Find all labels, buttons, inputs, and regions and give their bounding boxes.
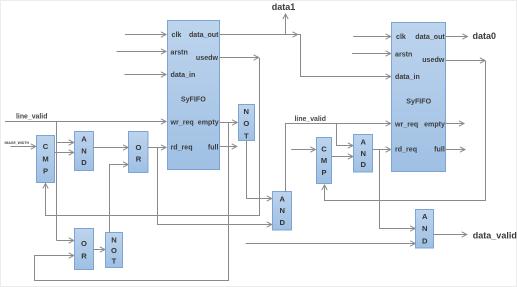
wire data1 up arrow [285,14,287,35]
gate NOT2 [106,233,123,268]
svg-text:N: N [244,107,249,116]
wire AND2 out up and right to wr_req2 [286,124,391,192]
wire line_valid branch to AND1 [57,142,74,144]
svg-text:T: T [112,256,117,265]
wire CMP1 out to AND1 [55,152,74,154]
svg-text:O: O [136,143,142,152]
wire CMP2 out to AND4 [332,156,353,158]
gate NOT1 [239,105,255,141]
svg-text:rd_req: rd_req [171,144,193,152]
svg-text:usedw: usedw [196,54,219,62]
svg-text:line_valid: line_valid [295,116,326,123]
wire rd_req1 branch down to AND2 [158,148,272,225]
block SyFIFO U2 [392,23,446,172]
svg-text:D: D [422,236,428,245]
svg-text:C: C [321,144,327,153]
wire line_valid branch to OR2 [57,240,74,242]
wire clk1 input [125,34,166,36]
svg-text:O: O [243,119,249,128]
wire AND1 out to OR1 [94,147,129,149]
block SyFIFO U1 [168,21,220,170]
svg-text:N: N [422,224,427,233]
wire full2 out [446,149,465,151]
gate AND5 [416,210,434,249]
svg-text:clk: clk [396,33,406,41]
gate AND1 [75,132,94,171]
svg-text:line_valid: line_valid [16,114,47,121]
svg-text:R: R [81,251,87,260]
svg-text:empty: empty [198,119,219,127]
wire empty1 to NOT1 [220,122,238,124]
svg-text:data_in: data_in [395,73,420,81]
wire AND4 out to rd_req2 [373,149,391,151]
wire OR1 out to rd_req1 [148,147,166,149]
svg-text:N: N [81,146,86,155]
svg-text:O: O [81,239,87,248]
svg-text:full: full [208,144,219,152]
svg-text:data_in: data_in [171,71,196,79]
wire line_valid to wr_req1 [5,121,166,123]
wire usedw2 out with corner arrow [446,60,485,62]
svg-text:SyFIFO: SyFIFO [181,96,206,104]
wire AND5 out to data_valid [434,234,467,236]
svg-text:data_out: data_out [189,31,219,39]
svg-text:wr_req: wr_req [394,121,418,129]
svg-text:data_out: data_out [415,33,445,41]
svg-text:P: P [43,166,48,175]
svg-text:A: A [280,195,286,204]
svg-text:SyFIFO: SyFIFO [406,98,431,106]
svg-text:D: D [280,218,286,227]
wire line_valid drop [56,122,58,241]
svg-text:empty: empty [424,121,445,129]
svg-text:IMAGE_WIDTH: IMAGE_WIDTH [5,141,30,145]
svg-text:rd_req: rd_req [395,146,417,154]
wire full1 out [220,146,237,148]
svg-text:clk: clk [172,31,182,39]
wire usedw1 out with corner arrow [220,57,259,59]
wire clk2 input [353,36,391,38]
svg-text:N: N [280,206,285,215]
wire data_in1 input [125,74,167,76]
gate AND4 [354,135,373,173]
wire NOT2 out up to OR1 [110,165,129,233]
wire NOT1 out down to AND2 [247,141,272,199]
svg-text:full: full [434,146,445,154]
svg-text:D: D [360,160,366,169]
svg-text:A: A [422,212,428,221]
svg-text:C: C [43,142,49,151]
svg-text:data1: data1 [272,2,296,12]
svg-text:usedw: usedw [422,56,445,64]
wire usedw1 feedback to CMP1 bottom [46,58,260,216]
gate AND2 [273,192,292,231]
svg-text:data_valid: data_valid [473,231,517,241]
gate OR1 [129,132,149,173]
svg-text:arstn: arstn [171,48,188,56]
wire AND4 branch down to AND5 [380,150,416,229]
wire empty1 drop to OR2 [35,123,229,281]
wire OR2 out to NOT2 [94,249,105,251]
wire IMAGE_WIDTH to CMP1 [11,146,36,148]
svg-text:M: M [321,156,327,165]
gate OR2 [75,229,94,270]
wire empty2 out [446,123,464,125]
wire arstn1 input [117,51,167,53]
svg-text:N: N [360,149,365,158]
svg-text:data0: data0 [473,31,497,41]
wire line_valid2 branch to AND4 [337,124,353,146]
wire CMP2 input [291,149,315,151]
comparator CMP2 [317,138,332,184]
svg-text:wr_req: wr_req [170,119,194,127]
svg-text:M: M [42,154,48,163]
wire data_out1 with corner arrow [220,34,298,36]
svg-text:arstn: arstn [395,50,412,58]
wire data_out2 to data0 [446,36,468,38]
wire usedw2 feedback to CMP2 bottom [325,61,486,201]
svg-text:D: D [81,158,87,167]
svg-text:A: A [81,135,87,144]
svg-text:O: O [111,246,117,255]
svg-text:N: N [111,236,116,245]
svg-text:R: R [136,154,142,163]
comparator CMP1 [37,136,55,183]
svg-text:T: T [244,131,249,140]
wire rd_req1 net long line to AND5 [246,243,416,245]
wire data_out1 to data_in2 [298,35,391,77]
svg-text:P: P [321,168,326,177]
svg-text:A: A [360,138,366,147]
wire arstn2 input [352,53,391,55]
